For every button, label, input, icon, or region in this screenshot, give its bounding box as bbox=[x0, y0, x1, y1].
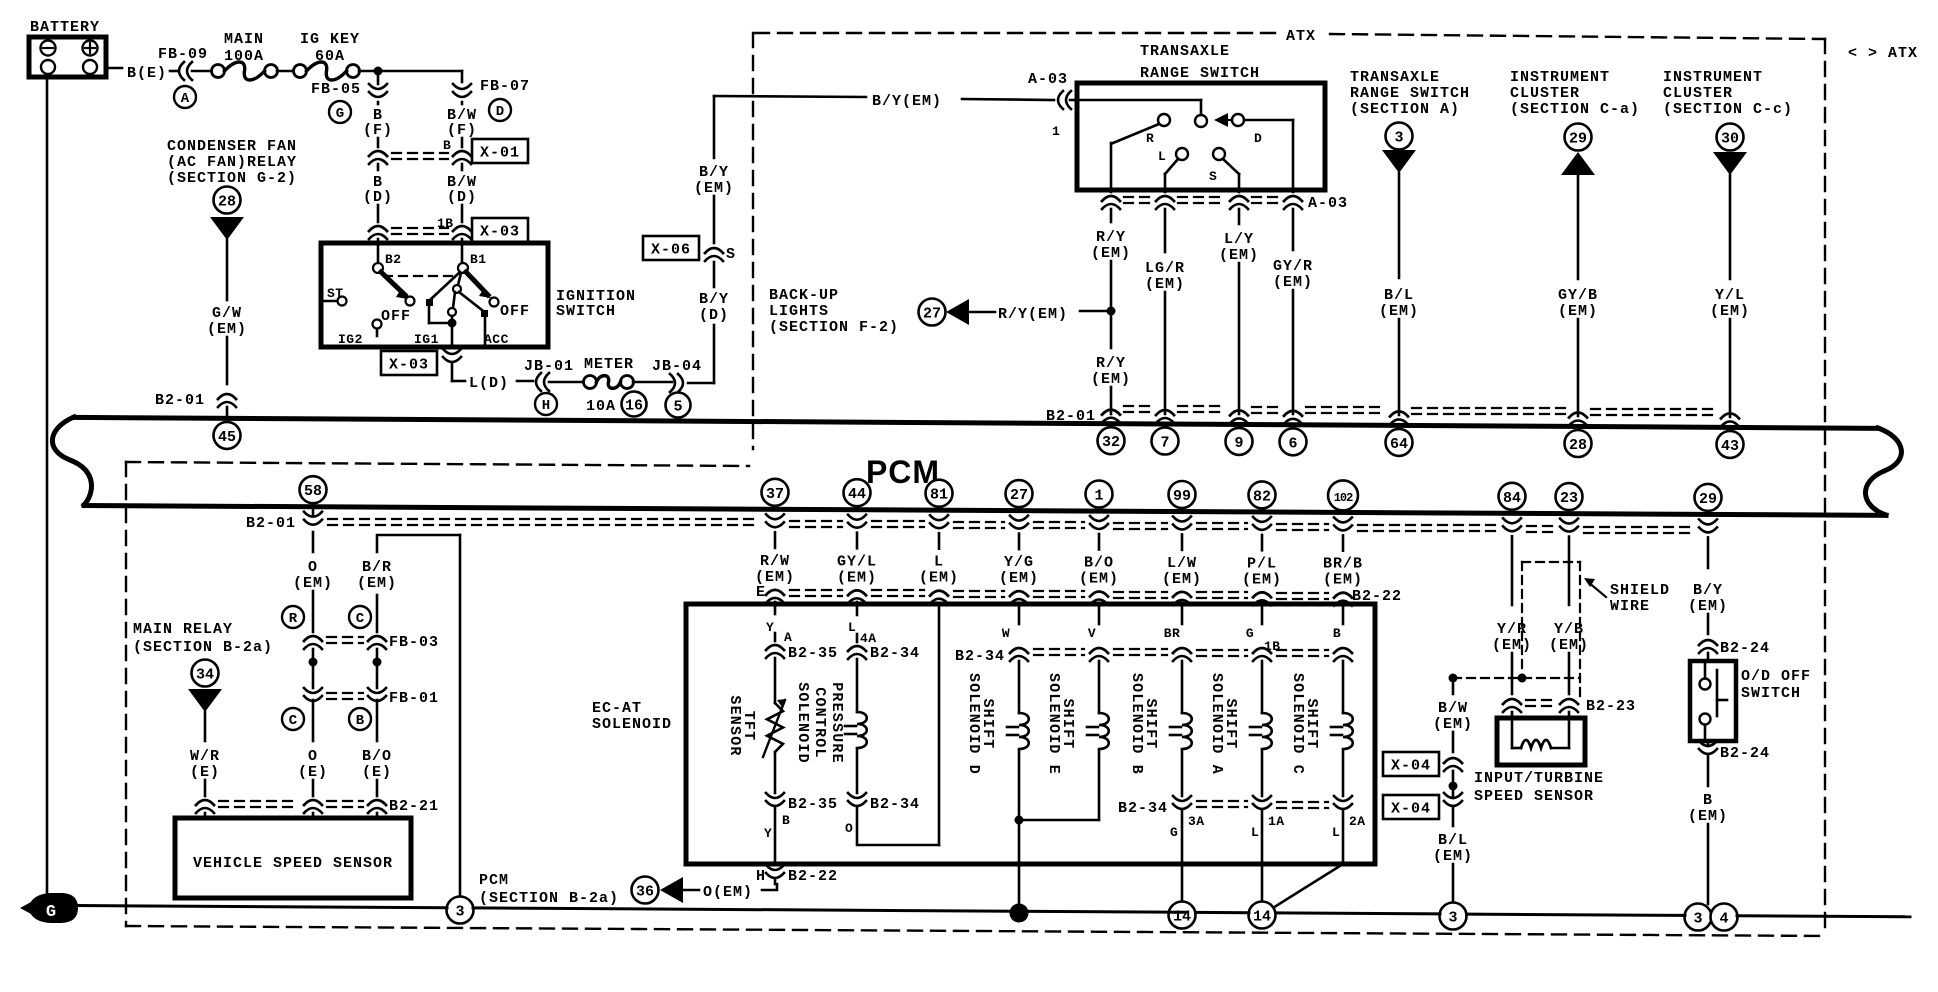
svg-text:B2-35: B2-35 bbox=[788, 645, 838, 662]
connector JB-04 / ref 5 bbox=[678, 374, 683, 392]
svg-text:(EM): (EM) bbox=[1549, 637, 1589, 654]
dashed link bbox=[384, 275, 452, 277]
svg-text:A-03: A-03 bbox=[1028, 71, 1068, 88]
pin 45 bbox=[214, 422, 241, 449]
svg-text:X-06: X-06 bbox=[651, 242, 691, 259]
svg-text:10A: 10A bbox=[586, 398, 616, 415]
svg-text:INPUT/TURBINE: INPUT/TURBINE bbox=[1474, 770, 1604, 787]
svg-text:VEHICLE SPEED SENSOR: VEHICLE SPEED SENSOR bbox=[193, 855, 393, 872]
svg-text:(EM): (EM) bbox=[1091, 245, 1131, 262]
node junction bbox=[374, 67, 383, 76]
connector 3 bbox=[1685, 904, 1712, 931]
svg-text:O: O bbox=[845, 821, 853, 836]
svg-text:B/W: B/W bbox=[1438, 700, 1468, 717]
svg-text:FB-03: FB-03 bbox=[389, 634, 439, 651]
wire GY/R (EM) bbox=[1292, 209, 1295, 250]
svg-text:82: 82 bbox=[1253, 488, 1271, 505]
svg-text:FB-05: FB-05 bbox=[311, 81, 361, 98]
wires solenoid outputs to ground refs bbox=[1018, 824, 1021, 913]
transaxle range switch box bbox=[1077, 83, 1325, 190]
wire Y/G (EM) bbox=[1018, 534, 1021, 550]
shift solenoid B bbox=[1181, 661, 1184, 713]
svg-text:1: 1 bbox=[1052, 124, 1060, 139]
wire L/W (EM) bbox=[1181, 535, 1184, 550]
wire B/W (D) bbox=[461, 164, 464, 170]
connector FB-09 bbox=[179, 62, 184, 80]
svg-text:102: 102 bbox=[1334, 491, 1353, 505]
node O junction bbox=[312, 649, 315, 662]
svg-text:O/D OFF: O/D OFF bbox=[1741, 668, 1811, 685]
svg-text:(SECTION B-2a): (SECTION B-2a) bbox=[479, 890, 619, 907]
wire B/Y (EM) riser bbox=[713, 196, 716, 243]
svg-text:3: 3 bbox=[1693, 911, 1702, 928]
svg-text:SHIELD: SHIELD bbox=[1610, 582, 1670, 599]
svg-text:CONTROL: CONTROL bbox=[811, 687, 828, 758]
wire battery to fuse block bbox=[106, 67, 122, 70]
svg-text:L: L bbox=[848, 620, 856, 635]
svg-text:R/W: R/W bbox=[760, 553, 790, 570]
svg-text:W: W bbox=[1002, 626, 1010, 641]
svg-text:B/O: B/O bbox=[362, 748, 392, 765]
svg-text:B1: B1 bbox=[470, 252, 487, 267]
svg-text:L: L bbox=[934, 554, 944, 571]
svg-text:W/R: W/R bbox=[190, 748, 220, 765]
shield wire dashed bbox=[1522, 561, 1580, 563]
connector B2-34 upper bbox=[848, 646, 866, 651]
pin 81 bbox=[926, 480, 953, 507]
svg-text:G: G bbox=[46, 903, 56, 922]
fuse MAIN 100A bbox=[212, 65, 225, 78]
svg-text:34: 34 bbox=[196, 667, 214, 684]
wire Y/B (EM) pin 23 bbox=[1568, 537, 1571, 605]
shift solenoid A bbox=[1261, 661, 1264, 713]
connector 14 second bbox=[1249, 902, 1276, 929]
svg-text:O: O bbox=[308, 748, 318, 765]
svg-text:(E): (E) bbox=[362, 764, 392, 781]
svg-text:TFT: TFT bbox=[740, 711, 757, 742]
svg-text:81: 81 bbox=[930, 487, 948, 504]
svg-text:PCM: PCM bbox=[479, 872, 509, 889]
connector A-03 row bbox=[1102, 196, 1120, 201]
svg-text:SHIFT: SHIFT bbox=[979, 698, 996, 749]
wire BR/B (EM) bbox=[1342, 535, 1345, 550]
wire L (EM) bbox=[938, 533, 941, 549]
wire battery negative to ground bbox=[46, 77, 49, 895]
pin 44 bbox=[844, 479, 871, 506]
svg-text:(EM): (EM) bbox=[357, 575, 397, 592]
svg-text:INSTRUMENT: INSTRUMENT bbox=[1510, 69, 1610, 86]
arrow to condenser relay bbox=[210, 217, 244, 240]
wire fuse to junction bbox=[359, 70, 378, 73]
ATX boundary dashed box bbox=[752, 33, 754, 449]
wire shift D to ground bbox=[1018, 750, 1021, 820]
wire W/R (E) bbox=[204, 712, 207, 741]
svg-text:28: 28 bbox=[218, 194, 236, 211]
wire stubs into EC-AT box bbox=[1018, 606, 1021, 624]
input/turbine speed sensor box bbox=[1497, 718, 1585, 765]
svg-text:(E): (E) bbox=[298, 764, 328, 781]
svg-text:14: 14 bbox=[1253, 909, 1271, 926]
pin 37 bbox=[762, 479, 789, 506]
svg-text:L: L bbox=[1251, 825, 1259, 840]
connector X-04 upper bbox=[1444, 758, 1462, 763]
node B/W junction bbox=[1452, 771, 1455, 786]
wire B/Y (EM) pin 29 bbox=[1707, 537, 1710, 568]
wire L return bbox=[938, 607, 941, 845]
wire junction to B/W branch bbox=[378, 70, 462, 73]
svg-text:3: 3 bbox=[455, 904, 464, 921]
svg-text:B2-34: B2-34 bbox=[870, 796, 920, 813]
svg-text:SWITCH: SWITCH bbox=[556, 303, 616, 320]
svg-text:CONDENSER FAN: CONDENSER FAN bbox=[167, 138, 297, 155]
connector B2-21 row bbox=[196, 800, 214, 805]
pin 102 bbox=[1328, 480, 1358, 510]
svg-text:H: H bbox=[756, 868, 766, 885]
shift solenoid E bbox=[1098, 661, 1101, 713]
wire B/W (EM) bbox=[1452, 678, 1455, 694]
pin 64 bbox=[1386, 429, 1413, 456]
svg-text:L(D): L(D) bbox=[469, 375, 509, 392]
svg-text:A: A bbox=[181, 91, 190, 107]
contact D with selector arrow bbox=[1232, 114, 1244, 126]
connector B2-23 row bbox=[1503, 699, 1521, 704]
connector 4 bbox=[1711, 904, 1738, 931]
svg-text:GY/R: GY/R bbox=[1273, 258, 1313, 275]
EC-AT solenoid box bbox=[686, 604, 1375, 864]
ignition contacts bbox=[431, 272, 460, 299]
svg-text:(EM): (EM) bbox=[999, 570, 1039, 587]
svg-text:(EM): (EM) bbox=[837, 569, 877, 586]
svg-text:L: L bbox=[1158, 149, 1166, 164]
svg-text:C: C bbox=[356, 611, 365, 627]
contact S bbox=[1213, 148, 1225, 160]
svg-text:(EM): (EM) bbox=[1433, 848, 1473, 865]
svg-text:FB-07: FB-07 bbox=[480, 78, 530, 95]
svg-text:4A: 4A bbox=[860, 631, 877, 646]
svg-text:B: B bbox=[1703, 792, 1713, 809]
wire B/O (E) bbox=[376, 700, 379, 741]
bottom dashed boundary bbox=[126, 926, 1825, 936]
svg-text:TRANSAXLE: TRANSAXLE bbox=[1140, 43, 1230, 60]
wire O (E) bbox=[312, 700, 315, 741]
wire R/Y vertical bbox=[1110, 143, 1113, 192]
connector 14 bbox=[1169, 902, 1196, 929]
wire O (EM) pin 58 bbox=[312, 509, 315, 515]
svg-text:2A: 2A bbox=[1349, 814, 1366, 829]
svg-text:(EM): (EM) bbox=[1688, 808, 1728, 825]
fuse METER 10A / ref 16 bbox=[584, 376, 597, 389]
wire LG/R (EM) bbox=[1164, 209, 1167, 252]
svg-text:B/L: B/L bbox=[1438, 832, 1468, 849]
svg-text:1B: 1B bbox=[437, 216, 454, 231]
terminal ACC bbox=[484, 317, 487, 345]
wire shift B bottom bbox=[1181, 750, 1184, 796]
svg-text:R/Y(EM): R/Y(EM) bbox=[998, 306, 1068, 323]
connector X-01 row bbox=[369, 151, 387, 156]
wire into common contact bbox=[1077, 99, 1201, 102]
svg-text:B/L: B/L bbox=[1384, 287, 1414, 304]
svg-text:(F): (F) bbox=[363, 122, 393, 139]
svg-text:A: A bbox=[784, 630, 792, 645]
connector FB-03 row bbox=[304, 636, 322, 641]
svg-text:28: 28 bbox=[1569, 437, 1587, 454]
connector B2-24 upper bbox=[1699, 640, 1717, 645]
svg-text:E: E bbox=[756, 584, 766, 601]
connector 3 bbox=[1440, 903, 1467, 930]
svg-text:(D): (D) bbox=[363, 189, 393, 206]
svg-text:100A: 100A bbox=[224, 48, 264, 65]
svg-text:JB-04: JB-04 bbox=[652, 358, 702, 375]
svg-text:3: 3 bbox=[1394, 130, 1403, 147]
svg-text:BR/B: BR/B bbox=[1323, 556, 1363, 573]
connector ref R bbox=[282, 606, 304, 628]
svg-text:B2-34: B2-34 bbox=[955, 648, 1005, 665]
svg-text:B2-35: B2-35 bbox=[788, 796, 838, 813]
connector B2-01 (45) bbox=[218, 394, 236, 399]
wire P/L (EM) bbox=[1261, 535, 1264, 550]
svg-text:X-03: X-03 bbox=[480, 224, 520, 241]
svg-text:(EM): (EM) bbox=[1219, 247, 1259, 264]
svg-text:(EM): (EM) bbox=[1433, 716, 1473, 733]
svg-text:(AC FAN)RELAY: (AC FAN)RELAY bbox=[167, 154, 297, 171]
svg-text:(EM): (EM) bbox=[207, 321, 247, 338]
wire GY/L (EM) bbox=[856, 533, 859, 549]
svg-text:B/Y: B/Y bbox=[699, 291, 729, 308]
svg-text:SOLENOID: SOLENOID bbox=[794, 682, 811, 764]
svg-text:(EM): (EM) bbox=[1323, 572, 1363, 589]
svg-text:B2-01: B2-01 bbox=[155, 392, 205, 409]
svg-text:27: 27 bbox=[1010, 487, 1028, 504]
svg-text:OFF: OFF bbox=[500, 303, 530, 320]
connector X-03 row bbox=[369, 226, 387, 231]
svg-text:58: 58 bbox=[304, 483, 322, 500]
svg-text:9: 9 bbox=[1234, 435, 1243, 452]
pin 23 bbox=[1556, 483, 1583, 510]
svg-text:B2: B2 bbox=[385, 252, 402, 267]
svg-text:G: G bbox=[1170, 825, 1178, 840]
svg-text:44: 44 bbox=[848, 486, 866, 503]
switch wiper B2-OFF bbox=[381, 272, 405, 295]
pin 58 bbox=[300, 476, 327, 503]
wire L/Y (EM) bbox=[1238, 209, 1241, 224]
pin 27 bbox=[1006, 480, 1033, 507]
svg-text:B: B bbox=[443, 138, 451, 153]
svg-text:60A: 60A bbox=[315, 48, 345, 65]
pressure control solenoid coil bbox=[857, 712, 867, 748]
svg-text:(D): (D) bbox=[447, 189, 477, 206]
svg-text:(D): (D) bbox=[699, 307, 729, 324]
pin 99 bbox=[1169, 481, 1196, 508]
wire B (EM) bbox=[1707, 754, 1710, 786]
svg-text:(SECTION G-2): (SECTION G-2) bbox=[167, 170, 297, 187]
node R/Y junction bbox=[1107, 307, 1116, 316]
svg-text:BR: BR bbox=[1164, 626, 1181, 641]
svg-text:SHIFT: SHIFT bbox=[1059, 698, 1076, 749]
svg-text:MAIN: MAIN bbox=[224, 31, 264, 48]
pin 43 bbox=[1717, 431, 1744, 458]
pin 82 bbox=[1249, 481, 1276, 508]
svg-text:Y: Y bbox=[764, 826, 772, 841]
svg-text:(EM): (EM) bbox=[1688, 598, 1728, 615]
svg-text:1: 1 bbox=[1094, 488, 1103, 505]
connector FB-07 / ref D bbox=[453, 84, 471, 89]
svg-text:(EM): (EM) bbox=[919, 570, 959, 587]
wire L(D) bbox=[451, 364, 454, 381]
svg-text:(E): (E) bbox=[190, 764, 220, 781]
svg-text:23: 23 bbox=[1560, 490, 1578, 507]
svg-text:C: C bbox=[289, 713, 298, 729]
svg-text:B2-24: B2-24 bbox=[1720, 745, 1770, 762]
svg-text:(EM): (EM) bbox=[293, 575, 333, 592]
svg-text:LG/R: LG/R bbox=[1145, 260, 1185, 277]
node ground junction bbox=[1010, 904, 1029, 923]
connector B2-35 lower bbox=[766, 793, 784, 798]
svg-text:(SECTION C-c): (SECTION C-c) bbox=[1663, 101, 1793, 118]
contact R bbox=[1158, 114, 1170, 126]
svg-text:OFF: OFF bbox=[381, 308, 411, 325]
svg-text:(EM): (EM) bbox=[1273, 274, 1313, 291]
svg-text:99: 99 bbox=[1173, 488, 1191, 505]
svg-text:Y/L: Y/L bbox=[1715, 287, 1745, 304]
connector 3 on ground wire bbox=[447, 897, 474, 924]
connector B2-24 lower bbox=[1699, 741, 1717, 746]
svg-text:37: 37 bbox=[766, 486, 784, 503]
svg-text:RANGE SWITCH: RANGE SWITCH bbox=[1140, 65, 1260, 82]
svg-text:SOLENOID: SOLENOID bbox=[592, 716, 672, 733]
connector H / B2-22 below box bbox=[766, 865, 784, 870]
svg-text:Y: Y bbox=[766, 620, 774, 635]
svg-text:B2-22: B2-22 bbox=[788, 868, 838, 885]
svg-text:H: H bbox=[542, 398, 550, 414]
svg-text:L: L bbox=[1332, 825, 1340, 840]
svg-text:BATTERY: BATTERY bbox=[30, 19, 100, 36]
svg-text:O(EM): O(EM) bbox=[703, 884, 753, 901]
svg-text:V: V bbox=[1088, 626, 1096, 641]
svg-text:ACC: ACC bbox=[484, 332, 509, 347]
svg-text:O: O bbox=[308, 559, 318, 576]
wire shift A bottom bbox=[1261, 750, 1264, 796]
svg-text:< > ATX: < > ATX bbox=[1848, 45, 1918, 62]
pin 1 bbox=[1086, 481, 1113, 508]
terminal IG2 bbox=[373, 320, 382, 329]
svg-text:EC-AT: EC-AT bbox=[592, 700, 642, 717]
svg-text:B(E): B(E) bbox=[127, 65, 167, 82]
svg-text:IG1: IG1 bbox=[414, 332, 439, 347]
svg-text:R/Y: R/Y bbox=[1096, 355, 1126, 372]
svg-text:SWITCH: SWITCH bbox=[1741, 685, 1801, 702]
svg-text:IG2: IG2 bbox=[338, 332, 363, 347]
svg-text:INSTRUMENT: INSTRUMENT bbox=[1663, 69, 1763, 86]
wire B/W (F) bbox=[461, 102, 464, 104]
svg-text:S: S bbox=[1209, 169, 1217, 184]
svg-text:36: 36 bbox=[636, 884, 654, 901]
svg-text:84: 84 bbox=[1503, 490, 1521, 507]
svg-text:G/W: G/W bbox=[212, 305, 242, 322]
bus right squiggle bbox=[1865, 428, 1901, 515]
ignition switch box bbox=[321, 243, 548, 347]
svg-text:(EM): (EM) bbox=[1558, 303, 1598, 320]
pin 28 bbox=[1565, 430, 1592, 457]
wire G/W (EM) bbox=[226, 240, 229, 300]
switch wiper B1-OFF bbox=[466, 272, 488, 295]
svg-text:FB-01: FB-01 bbox=[389, 690, 439, 707]
PCM section dashed boundary bbox=[125, 462, 127, 926]
svg-text:B2-23: B2-23 bbox=[1586, 698, 1636, 715]
contact L bbox=[1176, 148, 1188, 160]
svg-text:B2-01: B2-01 bbox=[246, 515, 296, 532]
wire Y/R (EM) pin 84 bbox=[1511, 536, 1514, 605]
wire B/Y (D) riser bbox=[713, 325, 716, 383]
pin 32 bbox=[1098, 427, 1125, 454]
svg-text:1B: 1B bbox=[1264, 639, 1281, 654]
wire B/L (EM) bbox=[1452, 806, 1455, 826]
svg-text:B/R: B/R bbox=[362, 559, 392, 576]
svg-text:SPEED SENSOR: SPEED SENSOR bbox=[1474, 788, 1594, 805]
svg-text:LIGHTS: LIGHTS bbox=[769, 303, 829, 320]
svg-text:(EM): (EM) bbox=[1145, 276, 1185, 293]
svg-text:B2-21: B2-21 bbox=[389, 798, 439, 815]
svg-text:L/W: L/W bbox=[1167, 555, 1197, 572]
svg-text:16: 16 bbox=[625, 398, 643, 415]
wire R/W (EM) bbox=[774, 532, 777, 548]
svg-text:(EM): (EM) bbox=[1079, 571, 1119, 588]
svg-text:B2-24: B2-24 bbox=[1720, 640, 1770, 657]
svg-text:G: G bbox=[1246, 626, 1254, 641]
svg-text:G: G bbox=[336, 106, 344, 122]
svg-text:B2-34: B2-34 bbox=[1118, 800, 1168, 817]
wire R/Y (EM) bbox=[1110, 209, 1113, 222]
svg-text:FB-09: FB-09 bbox=[158, 46, 208, 63]
ground symbol G bbox=[28, 893, 78, 923]
svg-text:(F): (F) bbox=[447, 122, 477, 139]
ground wire bbox=[76, 906, 447, 908]
svg-text:METER: METER bbox=[584, 356, 634, 373]
svg-text:30: 30 bbox=[1721, 131, 1739, 148]
svg-text:B/Y: B/Y bbox=[1693, 582, 1723, 599]
wire B/Y (EM) horizontal bbox=[714, 96, 866, 97]
svg-text:A-03: A-03 bbox=[1308, 195, 1348, 212]
svg-text:R: R bbox=[1146, 131, 1154, 146]
svg-text:MAIN RELAY: MAIN RELAY bbox=[133, 621, 233, 638]
svg-text:SHIFT: SHIFT bbox=[1222, 698, 1239, 749]
svg-text:(SECTION A): (SECTION A) bbox=[1350, 101, 1460, 118]
O/D off switch box bbox=[1690, 661, 1736, 741]
svg-text:R: R bbox=[289, 611, 298, 627]
svg-text:(EM): (EM) bbox=[1492, 637, 1532, 654]
TFT sensor (thermistor) bbox=[767, 703, 783, 752]
svg-text:5: 5 bbox=[673, 399, 682, 416]
connector ref 28 condenser bbox=[214, 187, 241, 214]
svg-text:PRESSURE: PRESSURE bbox=[828, 682, 845, 764]
svg-text:R/Y: R/Y bbox=[1096, 229, 1126, 246]
shift solenoid D bbox=[1018, 661, 1021, 713]
wire B (D) bbox=[377, 164, 380, 170]
svg-text:CLUSTER: CLUSTER bbox=[1663, 85, 1733, 102]
connector B2-35 upper bbox=[766, 645, 784, 650]
connector ref C upper bbox=[349, 606, 371, 628]
wire B/O (EM) bbox=[1098, 534, 1101, 550]
svg-text:(SECTION C-a): (SECTION C-a) bbox=[1510, 101, 1640, 118]
wire B/R (EM) bbox=[377, 535, 460, 552]
bus left squiggle bbox=[52, 417, 91, 505]
svg-text:B2-34: B2-34 bbox=[870, 645, 920, 662]
PCM bus upper line bbox=[74, 417, 1878, 428]
connector ref C bbox=[282, 708, 304, 730]
vehicle speed sensor box bbox=[175, 818, 411, 898]
svg-text:X-01: X-01 bbox=[480, 145, 520, 162]
svg-text:SHIFT: SHIFT bbox=[1303, 698, 1320, 749]
svg-text:(EM): (EM) bbox=[694, 180, 734, 197]
